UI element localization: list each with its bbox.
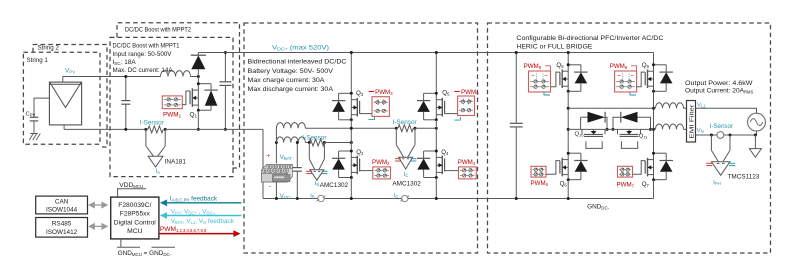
diode D-HERIC-1 [580,117,582,129]
feedback arrow V sense [165,215,242,217]
current sensor circle [717,132,724,139]
transistor Q1 [197,77,199,84]
wire inverter leg1 top [567,53,569,65]
wire PWM8 gate lead [551,72,560,87]
svg-text:IB: IB [310,194,315,200]
gate driver PWM8 box [529,71,551,92]
transistor Q5 [435,93,437,120]
svg-text:Q4: Q4 [441,149,449,156]
shunt resistor phase1 [398,125,413,132]
wire PV panel left to CPV cap [34,98,49,117]
teal mark PWM8 [544,92,550,95]
wire phase2 line to shunt [305,142,309,144]
node boost switch [197,75,200,78]
wire HERIC top branch [568,107,653,109]
wire PV panel top lead to VPV wire [62,77,64,83]
wire PWM1 to Q1 gate [182,91,190,105]
amplifier INA181 [145,129,147,146]
capacitor C-dclink [515,53,517,124]
svg-text:Configurable Bi-directional PF: Configurable Bi-directional PFC/Inverter… [516,35,663,42]
wire leg1 mid [350,120,352,151]
svg-text:PWM9: PWM9 [610,63,628,70]
svg-text:IPH: IPH [713,180,720,186]
dashed box: DC/DC Boost with MPPT2 [117,23,240,168]
svg-text:Max discharge current: 30A: Max discharge current: 30A [248,86,334,93]
svg-text:DC/DC Boost with MPPT2: DC/DC Boost with MPPT2 [125,27,191,34]
wire MCU gnd [117,239,175,247]
capacitor C-in boost [125,77,127,101]
svg-text:Output Power: 4.6kW: Output Power: 4.6kW [685,80,753,87]
isolated amp AMC1302 phase1 [395,128,397,145]
dashed box: DC/DC Boost with MPPT1 [110,37,233,176]
svg-text:PWM6: PWM6 [531,180,549,187]
inductor L-phase2 [276,137,305,143]
wire PWM5 gate lead [445,113,458,115]
svg-text:VDC+ (max 520V): VDC+ (max 520V) [272,45,329,52]
wire leg1 phase [567,91,569,153]
svg-text:I-Sensor: I-Sensor [710,123,733,130]
svg-text:Q3: Q3 [356,90,364,97]
svg-text:PWM5: PWM5 [461,89,479,96]
svg-text:TMCS1123: TMCS1123 [728,173,760,180]
shunt resistor I-Sensor boost [148,126,163,133]
feedback arrow I A,B,C,PH [165,202,242,204]
wire PWM2 gate lead [360,170,373,172]
svg-text:VPV: VPV [65,68,75,75]
wire N output [696,134,756,136]
svg-text:IA,B,C,PH feedback: IA,B,C,PH feedback [170,196,218,203]
svg-text:I-Sensor: I-Sensor [140,120,165,127]
wire battery- to bus [275,182,277,199]
label PWM3 [369,90,375,92]
svg-text:Q1: Q1 [190,112,198,119]
svg-text:PWM2: PWM2 [372,159,390,166]
teal mark PWM9 [630,92,636,95]
svg-text:Digital Control: Digital Control [114,219,157,226]
wire PV- down to GND bus [262,129,264,198]
AC source [748,113,766,131]
transistor Q10 [582,129,605,134]
chassis ground PV [29,134,40,141]
svg-text:VDDMCU: VDDMCU [119,182,143,189]
svg-text:PWM4: PWM4 [458,159,476,166]
wire PWM7 gate lead [633,161,646,175]
wire PWM9 gate lead [637,72,646,87]
inductor L-boost [161,71,191,77]
svg-text:CAN: CAN [55,199,69,206]
svg-text:IC: IC [394,193,399,199]
svg-text:INA181: INA181 [165,158,187,165]
svg-text:String 2: String 2 [38,45,60,52]
shunt resistor phase2 [309,139,324,146]
wire to earth ground [754,135,756,149]
wire leg1 bottom [350,178,352,199]
wire phase1 to leg2 [415,127,436,129]
current loop IB [318,195,324,201]
transistor Q6 [567,153,569,180]
svg-text:Output Current: 20ARMS: Output Current: 20ARMS [685,87,754,94]
svg-text:I-Sensor: I-Sensor [393,119,418,126]
inductor L-out-N [656,124,684,129]
MCU box F280039C [111,197,159,239]
dashed box: PV String 2 [33,45,107,148]
transistor Q9 [653,65,655,92]
svg-text:Q10: Q10 [575,131,585,137]
svg-text:Q8: Q8 [556,62,564,69]
isolated amp AMC1302 phase2 [308,143,310,160]
wire leg2 top [435,53,437,94]
wire PWM3 gate lead [360,113,372,115]
arrow CAN to MCU [89,202,107,207]
RS485 ISOW1412 box [36,218,88,238]
svg-text:AMC1302: AMC1302 [320,182,349,189]
wire phase1 line [305,127,396,129]
svg-text:AMC1302: AMC1302 [392,180,421,187]
EMI filter box [687,101,696,143]
transistor Q8 [567,65,569,92]
inductor L-out-L1 [656,103,684,108]
svg-text:PWM1: PWM1 [163,112,182,119]
svg-text:Q6: Q6 [560,180,568,187]
wire leg2 bottom [435,178,437,199]
wire AC source bottom [756,131,758,135]
CAN ISOW1044 box [36,196,88,214]
wire Q6 to bus [567,180,569,199]
svg-text:IC: IC [404,172,409,178]
wire leg2 mid [435,120,437,151]
wire battery+ vertical [275,128,277,163]
svg-text:GNDDC-: GNDDC- [587,204,610,211]
svg-text:ISOW1412: ISOW1412 [46,229,78,236]
svg-text:F280039C/: F280039C/ [118,202,151,209]
capacitor C-bat [296,143,298,168]
svg-text:VDC-: VDC- [280,193,293,200]
svg-text:GNDMCU = GNDDC-: GNDMCU = GNDDC- [118,250,172,257]
diode D-boost [197,53,199,56]
wire VDD rail [117,189,146,197]
wire Q7 to bus [653,180,655,199]
svg-text:String 1: String 1 [27,57,49,64]
capacitor CPV [30,116,39,118]
svg-text:Q11: Q11 [639,133,648,139]
svg-text:IA: IA [156,168,161,175]
transistor Q2 [350,151,352,178]
gate driver PWM7 box [618,166,633,177]
battery icon [262,165,293,183]
svg-text:+: + [267,153,271,160]
gate driver PWM4 box [459,167,477,179]
wire L1 output [696,108,757,113]
svg-text:Input range: 50-500V: Input range: 50-500V [113,51,173,58]
svg-text:EMI Filter: EMI Filter [690,104,696,138]
current loop IC [402,195,408,201]
transistor Q7 [653,153,655,180]
svg-text:PWM8: PWM8 [524,63,542,70]
teal mark PWM3 [369,116,375,119]
svg-text:CPV: CPV [26,112,36,118]
svg-text:ISC: 18A: ISC: 18A [113,59,137,66]
arrow RS485 to MCU [89,224,107,229]
wire PWM6 gate lead [546,161,560,175]
svg-text:PWM7: PWM7 [617,181,635,188]
gate driver PWM3 box [372,97,389,117]
dashed box: Configurable Bi-directional PFC/Inverter AC/DC [488,23,771,253]
PV panel [49,82,81,125]
wire leg1 top [350,53,352,94]
svg-text:VBAT, VL1, VN feedback: VBAT, VL1, VN feedback [171,218,235,225]
svg-text:RS485: RS485 [52,221,72,228]
wire DC+ rail [198,52,653,54]
transistor Q4 [435,151,437,178]
wire bus to middle box [165,128,263,130]
svg-text:Q5: Q5 [442,90,450,97]
svg-text:PWM1,2,3,4,5,6,7,8,9: PWM1,2,3,4,5,6,7,8,9 [160,226,207,233]
earth ground AC [749,149,761,158]
wire leg2 phase [653,91,655,153]
svg-text:Max charge current: 30A: Max charge current: 30A [248,77,325,84]
wire phase2 to leg1 [324,142,351,144]
wire GND DC- bus middle [263,198,654,200]
inductor L-phase1 [276,123,305,129]
wire PV bottom bus [64,128,146,130]
svg-text:MCU: MCU [127,228,142,235]
svg-text:F28P55xx: F28P55xx [120,210,151,217]
wire inverter leg2 top [653,53,655,65]
sensor TMCS1123 [710,135,712,150]
svg-text:Q7: Q7 [642,181,650,188]
gate driver PWM9 box [615,71,637,92]
dashed box: PV String 1 [23,52,100,144]
svg-text:VPV, VDC+ , VDC-,: VPV, VDC+ , VDC-, [171,208,216,215]
transistor Q3 [350,93,352,120]
svg-text:Q9: Q9 [642,62,650,69]
svg-text:VN: VN [697,128,704,134]
wire PV panel bottom lead [63,125,65,129]
gate driver PWM1 box [162,96,182,109]
dashed box: Bidirectional interleaved DC/DC [244,23,478,253]
svg-text:ISOW1044: ISOW1044 [46,207,78,214]
label PWM5 [454,90,459,92]
PWM arrow from MCU [159,233,236,235]
diode D-HERIC-2 [613,117,621,129]
capacitor C-out boost [224,53,226,82]
wire Q1 source to bus [197,110,199,129]
svg-text:Bidirectional interleaved DC/D: Bidirectional interleaved DC/DC [248,59,347,66]
gate driver PWM2 box [373,167,391,179]
svg-text:Q2: Q2 [356,149,364,156]
gate driver PWM5 box [458,96,475,116]
svg-text:Battery Voltage: 50V- 500V: Battery Voltage: 50V- 500V [248,68,334,75]
teal mark PWM5 [454,117,460,120]
transistor Q11 [618,129,641,134]
svg-text:DC/DC Boost with MPPT1: DC/DC Boost with MPPT1 [113,43,180,50]
wire HERIC bottom branch [568,128,653,130]
svg-text:HERIC or FULL BRIDGE: HERIC or FULL BRIDGE [516,44,593,51]
svg-text:PWM3: PWM3 [375,89,393,96]
wire PWM4 gate lead [445,170,459,172]
gate driver PWM6 box [531,166,546,177]
svg-text:VBAT: VBAT [280,154,293,161]
wire VPV to boost input [63,76,161,78]
